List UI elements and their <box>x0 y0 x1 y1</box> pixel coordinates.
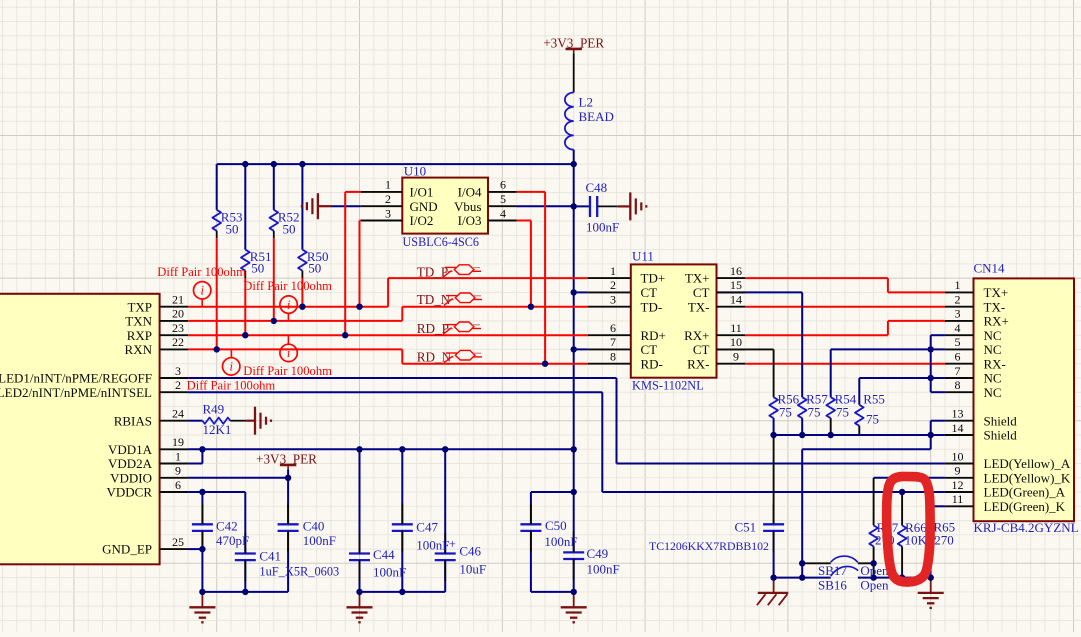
svg-text:12K1: 12K1 <box>203 422 232 437</box>
svg-text:KRJ-CB4.2GYZNL: KRJ-CB4.2GYZNL <box>974 520 1079 535</box>
svg-text:BEAD: BEAD <box>579 109 614 124</box>
svg-text:SB16: SB16 <box>818 578 847 593</box>
svg-text:VDD1A: VDD1A <box>108 442 153 457</box>
svg-text:14: 14 <box>730 293 742 307</box>
svg-text:i: i <box>200 284 204 298</box>
svg-text:TX-: TX- <box>688 299 710 314</box>
svg-text:C41: C41 <box>259 549 281 564</box>
svg-text:6: 6 <box>610 321 616 335</box>
svg-text:KMS-1102NL: KMS-1102NL <box>632 379 704 393</box>
svg-text:LED(Green)_A: LED(Green)_A <box>984 485 1066 500</box>
svg-text:10K: 10K <box>905 533 928 548</box>
svg-text:6: 6 <box>175 478 181 492</box>
svg-text:I/O4: I/O4 <box>458 185 482 200</box>
svg-text:SB17: SB17 <box>818 563 847 578</box>
svg-text:7: 7 <box>955 364 961 378</box>
svg-text:i: i <box>229 360 233 374</box>
svg-text:+: + <box>449 537 456 551</box>
svg-text:C48: C48 <box>586 180 608 195</box>
svg-text:C50: C50 <box>545 518 567 533</box>
svg-text:NC: NC <box>984 328 1002 343</box>
svg-text:100nF: 100nF <box>373 565 406 580</box>
svg-text:100nF: 100nF <box>586 220 619 235</box>
svg-text:LED(Green)_K: LED(Green)_K <box>984 499 1066 514</box>
svg-text:25: 25 <box>172 535 184 549</box>
svg-text:1: 1 <box>955 278 961 292</box>
svg-text:470pF: 470pF <box>216 533 249 548</box>
svg-text:50: 50 <box>226 221 239 236</box>
svg-text:270: 270 <box>934 533 954 548</box>
svg-text:1uF_X5R_0603: 1uF_X5R_0603 <box>259 565 339 579</box>
svg-text:75: 75 <box>836 404 849 419</box>
svg-text:LED1/nINT/nPME/REGOFF: LED1/nINT/nPME/REGOFF <box>0 371 152 386</box>
svg-text:100nF: 100nF <box>544 534 577 549</box>
svg-text:12: 12 <box>952 478 964 492</box>
svg-text:Open: Open <box>860 578 889 593</box>
svg-text:4: 4 <box>955 321 961 335</box>
svg-text:L2: L2 <box>579 95 593 110</box>
svg-text:8: 8 <box>610 350 616 364</box>
svg-text:Shield: Shield <box>984 428 1018 443</box>
svg-text:RXP: RXP <box>127 328 152 343</box>
svg-text:1: 1 <box>175 449 181 463</box>
svg-text:2: 2 <box>610 278 616 292</box>
svg-text:9: 9 <box>955 464 961 478</box>
svg-text:Vbus: Vbus <box>454 199 481 214</box>
svg-text:75: 75 <box>779 404 792 419</box>
svg-text:U11: U11 <box>632 249 654 264</box>
svg-text:TX-: TX- <box>984 299 1006 314</box>
svg-text:2: 2 <box>175 378 181 392</box>
svg-text:5: 5 <box>955 335 961 349</box>
svg-text:7: 7 <box>610 335 616 349</box>
svg-text:CT: CT <box>693 285 710 300</box>
svg-text:Diff Pair 100ohm: Diff Pair 100ohm <box>243 279 332 293</box>
svg-text:10uF: 10uF <box>459 562 486 577</box>
svg-text:Shield: Shield <box>984 413 1018 428</box>
svg-text:C46: C46 <box>459 544 481 559</box>
svg-text:C51: C51 <box>735 520 757 535</box>
svg-text:LED(Yellow)_A: LED(Yellow)_A <box>984 456 1071 471</box>
svg-text:I/O3: I/O3 <box>458 213 482 228</box>
svg-text:RD-: RD- <box>641 356 663 371</box>
svg-text:50: 50 <box>283 221 296 236</box>
svg-text:TX+: TX+ <box>685 271 710 286</box>
svg-text:100nF: 100nF <box>587 562 620 577</box>
svg-text:C42: C42 <box>216 519 238 534</box>
svg-text:GND_EP: GND_EP <box>102 542 152 557</box>
svg-text:+3V3_PER: +3V3_PER <box>543 36 604 51</box>
svg-text:24: 24 <box>172 407 184 421</box>
svg-text:RX-: RX- <box>984 356 1006 371</box>
svg-text:15: 15 <box>730 278 742 292</box>
svg-text:11: 11 <box>730 321 742 335</box>
svg-text:50: 50 <box>308 260 321 275</box>
svg-text:CT: CT <box>641 342 658 357</box>
svg-text:RBIAS: RBIAS <box>114 413 152 428</box>
svg-text:I/O1: I/O1 <box>410 185 434 200</box>
svg-text:R55: R55 <box>863 391 885 406</box>
svg-text:C47: C47 <box>416 520 438 535</box>
svg-text:CN14: CN14 <box>974 261 1006 276</box>
svg-text:RX+: RX+ <box>684 328 709 343</box>
svg-text:3: 3 <box>385 206 391 220</box>
svg-text:16: 16 <box>730 264 742 278</box>
svg-text:Diff Pair 100ohm: Diff Pair 100ohm <box>243 364 332 378</box>
svg-text:TC1206KKX7RDBB102: TC1206KKX7RDBB102 <box>649 539 769 553</box>
svg-text:VDDCR: VDDCR <box>106 485 152 500</box>
svg-text:C44: C44 <box>373 547 395 562</box>
svg-text:RX+: RX+ <box>984 314 1009 329</box>
svg-text:CT: CT <box>641 285 658 300</box>
svg-text:100nF: 100nF <box>416 538 449 553</box>
svg-text:i: i <box>287 346 291 360</box>
svg-text:TXN: TXN <box>125 314 152 329</box>
svg-text:8: 8 <box>955 378 961 392</box>
svg-text:19: 19 <box>172 435 184 449</box>
svg-text:TD+: TD+ <box>641 271 666 286</box>
svg-text:10: 10 <box>952 449 964 463</box>
svg-text:2: 2 <box>955 293 961 307</box>
svg-text:11: 11 <box>952 492 964 506</box>
svg-text:USBLC6-4SC6: USBLC6-4SC6 <box>403 235 480 249</box>
svg-text:3: 3 <box>610 293 616 307</box>
svg-text:75: 75 <box>866 412 879 427</box>
svg-text:TD-: TD- <box>641 299 663 314</box>
svg-text:LED2/nINT/nPME/nINTSEL: LED2/nINT/nPME/nINTSEL <box>0 385 152 400</box>
svg-text:50: 50 <box>251 260 264 275</box>
svg-text:4: 4 <box>500 206 506 220</box>
svg-text:6: 6 <box>955 350 961 364</box>
svg-text:TXP: TXP <box>127 299 152 314</box>
svg-text:I/O2: I/O2 <box>410 213 434 228</box>
svg-text:14: 14 <box>952 421 964 435</box>
svg-text:23: 23 <box>172 321 184 335</box>
svg-text:100nF: 100nF <box>303 533 336 548</box>
svg-text:13: 13 <box>952 407 964 421</box>
svg-text:RD+: RD+ <box>641 328 666 343</box>
svg-text:22: 22 <box>172 335 184 349</box>
svg-text:2: 2 <box>385 192 391 206</box>
svg-text:5: 5 <box>500 192 506 206</box>
svg-text:+3V3_PER: +3V3_PER <box>256 452 317 467</box>
svg-text:Diff Pair 100ohm: Diff Pair 100ohm <box>187 379 276 393</box>
svg-text:Open: Open <box>860 563 889 578</box>
svg-text:LED(Yellow)_K: LED(Yellow)_K <box>984 470 1071 485</box>
svg-text:20: 20 <box>172 307 184 321</box>
svg-text:Diff Pair 100ohm: Diff Pair 100ohm <box>157 265 246 279</box>
svg-text:C49: C49 <box>587 546 609 561</box>
svg-text:10: 10 <box>730 335 742 349</box>
svg-text:R49: R49 <box>203 402 225 417</box>
svg-text:RXN: RXN <box>125 342 153 357</box>
svg-text:U10: U10 <box>404 164 426 179</box>
svg-text:NC: NC <box>984 342 1002 357</box>
svg-text:3: 3 <box>955 307 961 321</box>
svg-text:1: 1 <box>385 178 391 192</box>
svg-text:3: 3 <box>175 364 181 378</box>
svg-text:1: 1 <box>610 264 616 278</box>
svg-text:NC: NC <box>984 385 1002 400</box>
svg-text:21: 21 <box>172 293 184 307</box>
svg-text:VDDIO: VDDIO <box>110 470 152 485</box>
svg-text:TX+: TX+ <box>984 285 1009 300</box>
svg-text:CT: CT <box>693 342 710 357</box>
svg-text:9: 9 <box>733 350 739 364</box>
svg-text:NC: NC <box>984 371 1002 386</box>
svg-text:GND: GND <box>410 199 438 214</box>
svg-text:C40: C40 <box>303 519 325 534</box>
svg-text:9: 9 <box>175 464 181 478</box>
svg-text:75: 75 <box>808 404 821 419</box>
svg-text:6: 6 <box>500 178 506 192</box>
svg-text:i: i <box>287 298 291 312</box>
svg-text:VDD2A: VDD2A <box>108 456 153 471</box>
svg-text:RX-: RX- <box>687 356 709 371</box>
